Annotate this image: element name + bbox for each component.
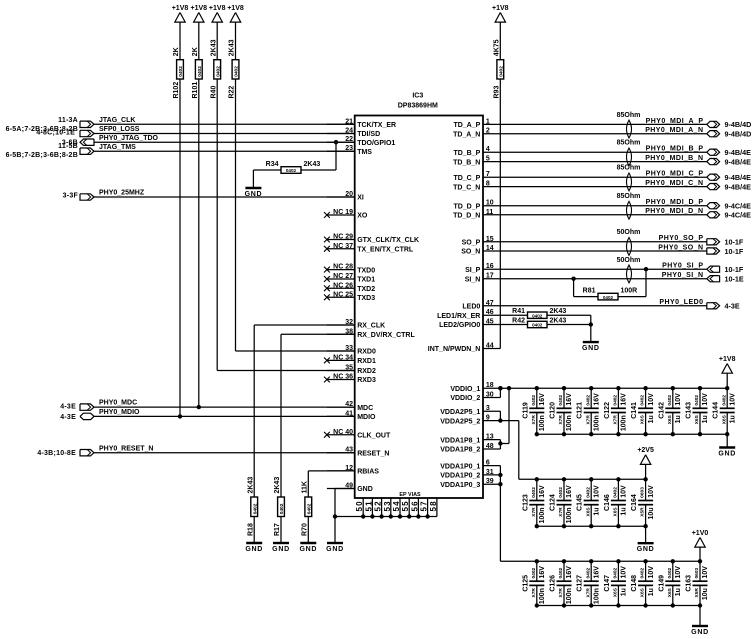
svg-text:55: 55	[401, 500, 410, 511]
svg-text:VDDA1P0_1: VDDA1P0_1	[440, 463, 480, 470]
svg-text:1u: 1u	[593, 507, 600, 515]
svg-text:10-1F: 10-1F	[725, 247, 744, 256]
svg-text:RX_DV/RX_CTRL: RX_DV/RX_CTRL	[357, 332, 415, 339]
svg-text:85Ohm: 85Ohm	[617, 140, 641, 147]
svg-text:C122: C122	[604, 402, 611, 419]
svg-text:PHY0_MDI_D_N: PHY0_MDI_D_N	[645, 208, 703, 215]
svg-text:10-1E: 10-1E	[725, 275, 744, 284]
svg-text:IC3: IC3	[412, 93, 423, 100]
svg-text:PHY0_MDI_A_P: PHY0_MDI_A_P	[646, 118, 704, 125]
svg-text:PHY0_LED0: PHY0_LED0	[659, 299, 703, 306]
svg-text:X7R: X7R	[558, 588, 564, 598]
svg-text:MDC: MDC	[357, 405, 373, 412]
svg-text:C123: C123	[522, 494, 529, 511]
svg-text:100n: 100n	[566, 507, 573, 523]
svg-text:1u: 1u	[648, 588, 655, 596]
svg-text:PHY0_SO_N: PHY0_SO_N	[658, 244, 703, 251]
svg-text:52: 52	[374, 500, 383, 511]
svg-text:16V: 16V	[593, 566, 600, 579]
svg-text:INT_N/PWDN_N: INT_N/PWDN_N	[428, 346, 481, 353]
svg-text:4-3E: 4-3E	[60, 404, 76, 411]
svg-text:EP VIAS: EP VIAS	[399, 492, 421, 498]
svg-text:R41: R41	[512, 308, 525, 315]
svg-text:2K43: 2K43	[550, 308, 567, 315]
svg-text:0402: 0402	[197, 66, 203, 77]
svg-text:R22: R22	[229, 86, 236, 99]
svg-text:R42: R42	[512, 318, 525, 325]
svg-text:GND: GND	[718, 451, 736, 458]
svg-text:0402: 0402	[558, 567, 564, 578]
svg-text:VDDA2P5_2: VDDA2P5_2	[440, 418, 480, 425]
svg-text:+1V8: +1V8	[209, 5, 226, 12]
svg-text:C145: C145	[577, 494, 584, 511]
svg-text:TD_D_N: TD_D_N	[453, 213, 480, 220]
svg-text:GND: GND	[582, 345, 600, 352]
svg-text:1u: 1u	[675, 415, 682, 423]
svg-text:4-3E: 4-3E	[725, 302, 740, 311]
svg-text:X7R: X7R	[558, 507, 564, 517]
svg-text:JTAG_CLK: JTAG_CLK	[99, 117, 135, 124]
svg-text:C119: C119	[522, 402, 529, 418]
svg-text:+1V8: +1V8	[191, 5, 208, 12]
svg-text:TX_EN/TX_CTRL: TX_EN/TX_CTRL	[357, 247, 414, 254]
svg-text:100n: 100n	[593, 415, 600, 431]
svg-text:NC 34: NC 34	[333, 354, 353, 361]
svg-text:1u: 1u	[648, 415, 655, 423]
svg-text:4-3E: 4-3E	[60, 414, 76, 421]
svg-text:100n: 100n	[593, 588, 600, 604]
svg-text:85Ohm: 85Ohm	[617, 193, 641, 200]
svg-text:TD_A_P: TD_A_P	[453, 122, 480, 129]
svg-text:C143: C143	[686, 402, 693, 419]
svg-text:2K43: 2K43	[274, 477, 281, 494]
svg-text:10V: 10V	[675, 393, 682, 406]
svg-text:R102: R102	[173, 82, 180, 99]
svg-text:1u: 1u	[621, 588, 628, 596]
svg-text:LED2/GPIO0: LED2/GPIO0	[439, 322, 480, 329]
svg-text:0402: 0402	[694, 395, 700, 406]
svg-text:SI_P: SI_P	[465, 267, 481, 274]
svg-text:0402: 0402	[613, 395, 619, 406]
svg-text:4-8C;10-1E: 4-8C;10-1E	[36, 130, 75, 137]
svg-text:10V: 10V	[648, 393, 655, 406]
svg-text:SFP0_LOSS: SFP0_LOSS	[99, 126, 140, 133]
svg-text:C146: C146	[604, 494, 611, 511]
svg-text:X5R: X5R	[640, 507, 646, 517]
svg-text:0402: 0402	[585, 567, 591, 578]
svg-text:R101: R101	[192, 82, 199, 99]
svg-text:TMS: TMS	[357, 149, 372, 156]
svg-text:9-4C/4E: 9-4C/4E	[725, 202, 752, 211]
svg-text:10V: 10V	[621, 566, 628, 579]
svg-text:10V: 10V	[702, 566, 709, 579]
svg-text:VDDA1P8_2: VDDA1P8_2	[440, 447, 480, 454]
svg-text:PHY0_SO_P: PHY0_SO_P	[659, 235, 704, 242]
svg-text:0402: 0402	[531, 487, 537, 498]
svg-text:TD_C_P: TD_C_P	[453, 175, 480, 182]
svg-text:TD_D_P: TD_D_P	[453, 203, 480, 210]
svg-text:2K: 2K	[192, 47, 199, 56]
svg-text:X7R: X7R	[558, 415, 564, 425]
svg-text:2K43: 2K43	[247, 477, 254, 494]
svg-text:PHY0_25MHZ: PHY0_25MHZ	[99, 190, 145, 197]
svg-text:C124: C124	[550, 494, 557, 511]
svg-text:TDI/SD: TDI/SD	[357, 131, 380, 138]
svg-text:TXD2: TXD2	[357, 286, 375, 293]
svg-text:XI: XI	[357, 195, 364, 202]
svg-text:9-4B/4E: 9-4B/4E	[725, 148, 752, 157]
svg-text:16V: 16V	[566, 485, 573, 498]
svg-text:CLK_OUT: CLK_OUT	[357, 433, 391, 440]
svg-text:0402: 0402	[252, 503, 258, 514]
svg-text:X6S: X6S	[640, 414, 646, 424]
svg-text:10u: 10u	[648, 507, 655, 519]
svg-text:16V: 16V	[566, 393, 573, 406]
svg-text:GND: GND	[272, 546, 290, 553]
svg-text:TXD3: TXD3	[357, 295, 375, 302]
svg-text:PHY0_MDI_A_N: PHY0_MDI_A_N	[645, 127, 703, 134]
svg-text:R34: R34	[266, 161, 279, 168]
svg-text:PHY0_MDIO: PHY0_MDIO	[99, 409, 140, 416]
svg-text:0402: 0402	[613, 567, 619, 578]
svg-text:TD_A_N: TD_A_N	[453, 131, 480, 138]
svg-text:0402: 0402	[532, 323, 543, 328]
svg-text:TD_B_N: TD_B_N	[453, 159, 480, 166]
svg-text:LED0: LED0	[462, 304, 480, 311]
svg-text:0402: 0402	[306, 503, 312, 514]
svg-text:0402: 0402	[531, 395, 537, 406]
svg-text:16V: 16V	[539, 485, 546, 498]
svg-text:NC 27: NC 27	[333, 273, 353, 280]
svg-text:2K43: 2K43	[304, 161, 321, 168]
svg-text:PHY0_SI_P: PHY0_SI_P	[662, 263, 703, 270]
svg-text:10-1F: 10-1F	[725, 265, 744, 274]
svg-text:C125: C125	[522, 575, 529, 592]
svg-text:16V: 16V	[539, 566, 546, 579]
svg-text:0402: 0402	[178, 66, 184, 77]
svg-text:100n: 100n	[621, 415, 628, 431]
svg-text:VDDA1P8_1: VDDA1P8_1	[440, 437, 480, 444]
svg-text:SO_P: SO_P	[462, 240, 481, 247]
svg-text:NC 29: NC 29	[333, 234, 353, 241]
svg-text:X7R: X7R	[531, 507, 537, 517]
svg-text:PHY0_MDI_C_N: PHY0_MDI_C_N	[645, 180, 703, 187]
svg-text:C163: C163	[686, 575, 693, 592]
svg-text:85Ohm: 85Ohm	[617, 112, 641, 119]
svg-text:PHY0_RESET_N: PHY0_RESET_N	[99, 445, 153, 452]
svg-text:10V: 10V	[702, 393, 709, 406]
svg-text:9-4B/4E: 9-4B/4E	[725, 157, 752, 166]
svg-text:0402: 0402	[640, 395, 646, 406]
svg-text:0603: 0603	[694, 567, 700, 578]
svg-text:VDDIO_2: VDDIO_2	[450, 395, 480, 402]
svg-text:C147: C147	[604, 575, 611, 592]
svg-text:JTAG_TMS: JTAG_TMS	[99, 144, 136, 151]
svg-text:TD_C_N: TD_C_N	[453, 184, 480, 191]
svg-text:0402: 0402	[532, 313, 543, 318]
svg-text:50Ohm: 50Ohm	[617, 257, 641, 264]
svg-text:TCK/TX_ER: TCK/TX_ER	[357, 122, 396, 129]
svg-text:2K: 2K	[173, 47, 180, 56]
svg-text:9-4C/4E: 9-4C/4E	[725, 211, 752, 220]
svg-text:9-4B/4D: 9-4B/4D	[725, 120, 752, 129]
svg-text:X6S: X6S	[694, 414, 700, 424]
svg-text:9-4B/4D: 9-4B/4D	[725, 130, 752, 139]
svg-text:+1V8: +1V8	[172, 5, 189, 12]
svg-text:X7R: X7R	[585, 415, 591, 425]
svg-text:C144: C144	[713, 402, 720, 419]
svg-text:50Ohm: 50Ohm	[617, 229, 641, 236]
svg-text:RXD0: RXD0	[357, 349, 376, 356]
svg-text:C142: C142	[658, 402, 665, 419]
svg-text:NC 36: NC 36	[333, 374, 353, 381]
svg-text:100n: 100n	[539, 507, 546, 523]
svg-text:PHY0_MDI_D_P: PHY0_MDI_D_P	[646, 199, 704, 206]
svg-text:VDDA1P0_3: VDDA1P0_3	[440, 482, 480, 489]
svg-text:PHY0_SI_N: PHY0_SI_N	[662, 272, 704, 279]
svg-text:RX_CLK: RX_CLK	[357, 323, 385, 330]
svg-text:10u: 10u	[702, 588, 709, 600]
svg-text:0402: 0402	[721, 395, 727, 406]
svg-text:0402: 0402	[234, 66, 240, 77]
svg-text:X7R: X7R	[531, 588, 537, 598]
svg-text:9-4B/4E: 9-4B/4E	[725, 182, 752, 191]
svg-text:GND: GND	[299, 546, 317, 553]
svg-text:11-3A: 11-3A	[58, 117, 78, 124]
svg-text:10V: 10V	[621, 485, 628, 498]
svg-text:+2V5: +2V5	[637, 447, 654, 454]
svg-text:100R: 100R	[621, 288, 638, 295]
svg-text:0402: 0402	[640, 567, 646, 578]
svg-text:X6S: X6S	[667, 587, 673, 597]
svg-text:GND: GND	[326, 546, 344, 553]
svg-text:TXD0: TXD0	[357, 267, 375, 274]
svg-text:0402: 0402	[585, 487, 591, 498]
svg-text:0402: 0402	[558, 487, 564, 498]
svg-text:X7R: X7R	[613, 415, 619, 425]
svg-text:R70: R70	[302, 523, 309, 536]
svg-text:16V: 16V	[539, 393, 546, 406]
svg-text:1u: 1u	[621, 507, 628, 515]
svg-text:0402: 0402	[215, 66, 221, 77]
svg-text:RBIAS: RBIAS	[357, 469, 379, 476]
svg-text:100n: 100n	[566, 415, 573, 431]
svg-text:2K43: 2K43	[550, 318, 567, 325]
svg-text:X6S: X6S	[585, 507, 591, 517]
svg-text:X6S: X6S	[613, 507, 619, 517]
svg-text:10V: 10V	[648, 566, 655, 579]
svg-text:C120: C120	[550, 402, 557, 419]
svg-text:X7R: X7R	[531, 415, 537, 425]
svg-text:53: 53	[383, 500, 392, 511]
svg-text:R40: R40	[210, 86, 217, 99]
svg-text:NC 28: NC 28	[333, 264, 353, 271]
svg-text:NC 26: NC 26	[333, 282, 353, 289]
svg-text:0603: 0603	[640, 487, 646, 498]
svg-text:10V: 10V	[648, 485, 655, 498]
svg-text:4-3B;10-8E: 4-3B;10-8E	[37, 450, 76, 457]
svg-text:SI_N: SI_N	[465, 276, 481, 283]
svg-text:GND: GND	[245, 546, 263, 553]
svg-text:0402: 0402	[585, 395, 591, 406]
svg-text:11-5B: 11-5B	[58, 143, 78, 150]
svg-text:+1V8: +1V8	[719, 356, 736, 363]
svg-text:NC 37: NC 37	[333, 243, 353, 250]
svg-text:16V: 16V	[566, 566, 573, 579]
svg-text:85Ohm: 85Ohm	[617, 165, 641, 172]
svg-text:+1V0: +1V0	[692, 530, 709, 537]
svg-text:VDDA2P5_1: VDDA2P5_1	[440, 409, 480, 416]
svg-text:10V: 10V	[729, 393, 736, 406]
svg-text:2K43: 2K43	[229, 39, 236, 56]
svg-text:6-5B;7-2B;3-6B;8-2B: 6-5B;7-2B;3-6B;8-2B	[6, 152, 78, 159]
svg-text:57: 57	[420, 500, 429, 511]
svg-text:GND: GND	[691, 629, 709, 636]
svg-text:SO_N: SO_N	[461, 249, 480, 256]
svg-text:0402: 0402	[613, 487, 619, 498]
svg-text:LED1/RX_ER: LED1/RX_ER	[437, 313, 480, 320]
svg-text:0402: 0402	[498, 66, 504, 77]
svg-text:16V: 16V	[621, 393, 628, 406]
svg-text:R18: R18	[247, 523, 254, 536]
svg-text:NC 40: NC 40	[333, 429, 353, 436]
svg-text:0402: 0402	[531, 567, 537, 578]
svg-text:1u: 1u	[675, 588, 682, 596]
svg-text:+1V8: +1V8	[492, 5, 509, 12]
svg-text:1u: 1u	[729, 415, 736, 423]
svg-text:PHY0_MDI_C_P: PHY0_MDI_C_P	[646, 171, 704, 178]
svg-text:0402: 0402	[667, 567, 673, 578]
svg-text:C127: C127	[577, 575, 584, 592]
svg-text:10V: 10V	[675, 566, 682, 579]
svg-text:GND: GND	[637, 546, 655, 553]
svg-text:0402: 0402	[667, 395, 673, 406]
svg-text:10-1F: 10-1F	[725, 238, 744, 247]
svg-text:C149: C149	[658, 575, 665, 592]
svg-text:GND: GND	[245, 191, 263, 198]
svg-text:NC 25: NC 25	[333, 291, 353, 298]
svg-text:MDIO: MDIO	[357, 414, 376, 421]
svg-text:X6S: X6S	[721, 414, 727, 424]
svg-text:0402: 0402	[279, 503, 285, 514]
svg-text:PHY0_MDC: PHY0_MDC	[99, 400, 137, 407]
svg-text:100n: 100n	[566, 588, 573, 604]
svg-text:51: 51	[364, 500, 373, 511]
svg-text:11K: 11K	[302, 481, 309, 493]
svg-text:GND: GND	[357, 486, 373, 493]
svg-text:50: 50	[355, 500, 364, 511]
svg-text:X6S: X6S	[613, 587, 619, 597]
svg-text:X7R: X7R	[585, 588, 591, 598]
svg-text:RXD3: RXD3	[357, 377, 376, 384]
svg-text:TXD1: TXD1	[357, 277, 375, 284]
svg-text:2K43: 2K43	[210, 39, 217, 56]
svg-text:NC 19: NC 19	[333, 209, 353, 216]
svg-text:R81: R81	[583, 288, 596, 295]
svg-text:4K75: 4K75	[494, 39, 501, 56]
svg-text:XO: XO	[357, 213, 368, 220]
svg-text:0402: 0402	[286, 168, 297, 173]
svg-text:VDDA1P0_2: VDDA1P0_2	[440, 473, 480, 480]
svg-text:X5R: X5R	[694, 588, 700, 598]
svg-text:PHY0_MDI_B_P: PHY0_MDI_B_P	[646, 146, 704, 153]
svg-text:C121: C121	[577, 402, 584, 419]
svg-text:100n: 100n	[539, 415, 546, 431]
svg-text:0402: 0402	[603, 295, 614, 300]
svg-text:1u: 1u	[702, 415, 709, 423]
svg-text:C141: C141	[631, 402, 638, 419]
svg-text:RXD2: RXD2	[357, 368, 376, 375]
svg-text:X6S: X6S	[667, 414, 673, 424]
svg-text:TDO/GPIO1: TDO/GPIO1	[357, 140, 395, 147]
svg-text:RXD1: RXD1	[357, 358, 376, 365]
svg-text:16V: 16V	[593, 393, 600, 406]
svg-text:R93: R93	[494, 86, 501, 99]
svg-text:10V: 10V	[593, 485, 600, 498]
svg-text:X6S: X6S	[640, 587, 646, 597]
svg-text:GTX_CLK/TX_CLK: GTX_CLK/TX_CLK	[357, 237, 419, 244]
svg-text:0402: 0402	[558, 395, 564, 406]
svg-text:56: 56	[410, 500, 419, 511]
svg-text:3-3F: 3-3F	[63, 192, 79, 199]
svg-text:C164: C164	[631, 494, 638, 511]
svg-text:54: 54	[392, 500, 401, 511]
svg-text:VDDIO_1: VDDIO_1	[450, 386, 480, 393]
svg-text:R17: R17	[274, 523, 281, 536]
svg-text:+1V8: +1V8	[227, 5, 244, 12]
svg-text:RESET_N: RESET_N	[357, 450, 389, 457]
svg-text:TD_B_P: TD_B_P	[453, 150, 480, 157]
svg-text:9-4B/4E: 9-4B/4E	[725, 173, 752, 182]
svg-text:PHY0_MDI_B_N: PHY0_MDI_B_N	[645, 155, 703, 162]
svg-text:100n: 100n	[539, 588, 546, 604]
svg-text:C126: C126	[550, 575, 557, 592]
svg-text:58: 58	[429, 500, 438, 511]
svg-text:PHY0_JTAG_TDO: PHY0_JTAG_TDO	[99, 135, 159, 142]
svg-text:DP83869HM: DP83869HM	[398, 103, 438, 110]
svg-text:C148: C148	[631, 575, 638, 592]
